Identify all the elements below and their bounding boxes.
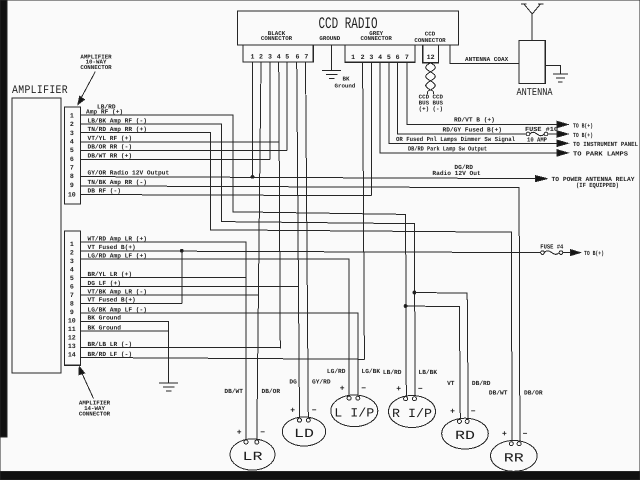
radio black connector J1	[243, 45, 313, 62]
svg-text:Radio 12V Out: Radio 12V Out	[432, 170, 481, 177]
svg-text:CONNECTOR: CONNECTOR	[79, 411, 111, 418]
wire BR/YL LR (+) pin5 joins LR (+) drop	[81, 277, 247, 279]
svg-text:−: −	[418, 385, 423, 394]
svg-text:3: 3	[70, 130, 74, 137]
wire black pin2 drop to LR speaker (-)	[257, 62, 261, 440]
svg-text:TN/RD Amp RR (+): TN/RD Amp RR (+)	[88, 126, 147, 133]
svg-text:DB/RD: DB/RD	[472, 380, 491, 387]
svg-text:(IF EQUIPPED): (IF EQUIPPED)	[576, 182, 619, 189]
svg-text:VT Fused B(+): VT Fused B(+)	[88, 244, 136, 251]
svg-text:+: +	[340, 385, 345, 394]
svg-text:BR/YL LR (+): BR/YL LR (+)	[88, 271, 133, 278]
svg-text:7: 7	[70, 164, 74, 171]
svg-text:Ground: Ground	[335, 83, 356, 90]
svg-text:6: 6	[396, 54, 400, 61]
speaker R I/P right instrument panel	[389, 396, 436, 428]
svg-text:BK: BK	[343, 76, 350, 83]
node junction R I/P(-) to RD branch	[413, 291, 416, 294]
amplifier 10-way connector J4	[65, 107, 81, 204]
grey connector pin numbers 1-7	[351, 54, 409, 61]
svg-text:DB RF (-): DB RF (-)	[88, 187, 121, 194]
wire branch to RD speaker (+)	[406, 306, 461, 419]
svg-text:LG/BK: LG/BK	[362, 368, 381, 375]
svg-text:DG LF (+): DG LF (+)	[88, 280, 121, 287]
wire GY/OR Radio 12V Output pin8 to power antenna relay	[81, 177, 536, 179]
svg-text:6: 6	[296, 54, 300, 61]
svg-text:GROUND: GROUND	[319, 35, 340, 42]
svg-text:4: 4	[378, 54, 382, 61]
wire TN/RD Amp RR (+) pin3 to RR speaker (+)	[81, 133, 513, 442]
node junction black pin1 on 12V output wire	[251, 175, 254, 178]
svg-text:10 AMP: 10 AMP	[527, 137, 547, 144]
antenna unit body	[519, 41, 545, 84]
svg-text:5: 5	[285, 54, 289, 61]
svg-text:BK Ground: BK Ground	[88, 325, 122, 332]
svg-text:RD/GY Fused B(+): RD/GY Fused B(+)	[443, 126, 502, 133]
svg-text:5: 5	[387, 54, 391, 61]
svg-text:LB/BK Amp RF (-): LB/BK Amp RF (-)	[88, 117, 147, 124]
svg-text:14: 14	[68, 351, 76, 358]
label TO POWER ANTENNA RELAY (IF EQUIPPED)	[552, 176, 635, 189]
radio CCD connector J3 pin 12	[423, 45, 439, 63]
svg-text:CONNECTOR: CONNECTOR	[80, 64, 112, 71]
wire VT/BK Amp LR (-) pin7 joins LR (-) drop	[81, 294, 259, 296]
wire antenna coax from radio	[450, 45, 519, 63]
wire black pin3 drop to DB/WT RR row	[269, 62, 271, 160]
svg-text:LR: LR	[243, 450, 264, 464]
svg-text:TO B(+): TO B(+)	[584, 250, 604, 257]
wire black pin1 drop to 12V output junction	[252, 62, 254, 177]
wire black pin6 drop to LD speaker (+)	[297, 62, 300, 418]
wire grey pin4 DB/RD Park Lamp Sw Output	[380, 62, 556, 153]
amplifier unit body	[12, 84, 68, 373]
svg-text:LG/RD Amp LF (+): LG/RD Amp LF (+)	[88, 253, 147, 260]
svg-text:12: 12	[68, 334, 76, 341]
wire black pin7 drop to LD speaker (-)	[306, 62, 309, 418]
svg-text:LB/BK: LB/BK	[419, 369, 438, 376]
svg-text:VT/YL RF (+): VT/YL RF (+)	[88, 135, 133, 142]
wire BR/LB LR (-) pin13	[81, 347, 281, 349]
wire LB/RD Amp RF (+) pin1 to R I/P speaker (+)	[81, 115, 407, 396]
svg-text:7: 7	[70, 292, 74, 299]
svg-text:2: 2	[70, 249, 74, 256]
svg-text:FUSE #10: FUSE #10	[525, 126, 558, 133]
grey connector label	[361, 30, 393, 42]
svg-text:4: 4	[70, 266, 74, 273]
CCD bus wire labels	[419, 93, 444, 112]
svg-text:(+) (-): (+) (-)	[419, 105, 443, 112]
wire black pin4 drop to BR/LB LR row	[279, 62, 281, 349]
black connector pin numbers 1-7	[251, 54, 309, 61]
svg-text:2: 2	[70, 121, 74, 128]
wire BK Ground pin11 to ground	[81, 331, 169, 383]
wire black pin5 drop to DB/OR RR row	[286, 62, 288, 151]
svg-text:2: 2	[259, 54, 263, 61]
svg-text:+: +	[502, 430, 507, 439]
svg-text:5: 5	[70, 147, 74, 154]
wire DB/WT RR (+) pin6 to black connector pin3	[81, 159, 271, 161]
svg-text:1: 1	[251, 54, 255, 61]
svg-text:GY/OR Radio 12V Output: GY/OR Radio 12V Output	[88, 170, 170, 177]
svg-text:RD: RD	[455, 429, 475, 443]
amplifier 10-way connector label with arrow	[78, 53, 112, 104]
svg-text:TO B(+): TO B(+)	[573, 132, 593, 139]
wire grey pin3 drop to DB RF row	[370, 62, 372, 195]
svg-text:TO INSTRUMENT PANEL: TO INSTRUMENT PANEL	[573, 141, 638, 148]
svg-text:6: 6	[70, 283, 74, 290]
svg-text:1: 1	[70, 241, 74, 248]
black connector label	[261, 30, 293, 42]
svg-text:2: 2	[361, 54, 365, 61]
arrow TO B(+) fuse 4	[571, 250, 581, 256]
svg-text:11: 11	[68, 326, 76, 333]
svg-text:DB/WT: DB/WT	[224, 388, 243, 395]
svg-text:TO B(+): TO B(+)	[573, 122, 593, 129]
amplifier 14-way connector J5	[65, 231, 81, 365]
svg-text:13: 13	[68, 343, 76, 350]
wire BR/RD LF (-) pin14 to grey pin2	[81, 357, 365, 359]
svg-text:6: 6	[70, 156, 74, 163]
svg-text:LG/BK Amp LF (-): LG/BK Amp LF (-)	[88, 307, 147, 314]
svg-text:7: 7	[304, 54, 308, 61]
svg-text:DB/WT: DB/WT	[489, 390, 508, 397]
wire grey pin5 OR Fused Pnl Lamps Dimmer Sw Signal	[389, 62, 557, 143]
svg-text:5: 5	[70, 275, 74, 282]
svg-text:−: −	[361, 385, 366, 394]
wire fuse 4 to arrow	[563, 252, 571, 254]
svg-text:9: 9	[70, 309, 74, 316]
node junction VT fused tap	[180, 249, 183, 252]
wire LB/BK Amp RF (-) pin2 to R I/P speaker (-)	[81, 124, 416, 396]
wire VT fused tap down to pin8 row	[181, 251, 183, 303]
svg-text:CONNECTOR: CONNECTOR	[414, 37, 446, 44]
svg-text:WT/RD Amp LR (+): WT/RD Amp LR (+)	[88, 235, 147, 242]
speaker RD right door	[442, 418, 489, 449]
svg-text:VT: VT	[447, 380, 455, 387]
wire DB/OR RR (-) pin5 to black connector pin5	[81, 150, 288, 152]
svg-text:VT/BK Amp LR (-): VT/BK Amp LR (-)	[88, 289, 147, 296]
wire VT/YL RF (+) pin4 to black connector pin4	[81, 141, 279, 143]
10-way pin numbers 1-10	[68, 112, 76, 198]
svg-text:7: 7	[405, 54, 409, 61]
CCD radio head unit U1	[238, 11, 459, 45]
CCD bus twisted pair	[426, 63, 436, 94]
svg-text:LB/RD: LB/RD	[383, 369, 402, 376]
wire grey pin7 RD/VT B(+) to battery	[407, 62, 557, 124]
wire grey pin6 RD/GY Fused B(+) to fuse 10	[398, 62, 527, 134]
arrow to power antenna relay	[536, 176, 548, 182]
fuse F4 FUSE #4	[540, 244, 563, 255]
wire DB RF (-) pin10 to grey connector pin3	[81, 195, 372, 196]
svg-text:3: 3	[369, 54, 373, 61]
svg-text:BK Ground: BK Ground	[88, 314, 122, 321]
svg-text:Amp RF (+): Amp RF (+)	[86, 109, 123, 116]
wire radio ground stem	[331, 45, 333, 70]
svg-text:TN/BK Amp RR (-): TN/BK Amp RR (-)	[88, 179, 147, 186]
svg-text:GY/RD: GY/RD	[312, 379, 331, 386]
wire WT/RD Amp LR (+) pin1 to LR speaker (+)	[81, 242, 247, 440]
speaker L I/P left instrument panel	[331, 395, 378, 427]
wire fuse 10 to arrow	[548, 133, 557, 135]
svg-text:−: −	[471, 408, 476, 417]
label DG/RD Radio 12V Out	[432, 164, 481, 177]
wire VT Fused B(+) pin8 to tap	[81, 302, 182, 304]
svg-text:BR/RD LF (-): BR/RD LF (-)	[88, 351, 133, 358]
svg-text:+: +	[396, 385, 401, 394]
wire LG/BK Amp LF (-) pin9 to L I/P speaker (-)	[81, 313, 358, 395]
svg-text:1: 1	[351, 54, 355, 61]
svg-text:ANTENNA COAX: ANTENNA COAX	[465, 56, 509, 63]
arrow TO B(+) row2	[557, 131, 568, 137]
svg-text:1: 1	[70, 112, 74, 119]
svg-text:DB/OR RR (-): DB/OR RR (-)	[88, 144, 133, 151]
svg-text:−: −	[523, 430, 528, 439]
svg-text:ANTENNA: ANTENNA	[517, 87, 554, 99]
svg-text:4: 4	[277, 54, 281, 61]
ground amplifier ground	[159, 383, 178, 391]
svg-text:DB/WT RR (+): DB/WT RR (+)	[88, 152, 133, 159]
speaker RR right rear	[491, 441, 538, 472]
wire VT Fused B(+) pin2 to fuse 4	[81, 251, 541, 253]
svg-text:12: 12	[427, 54, 435, 61]
svg-text:+: +	[237, 428, 242, 437]
wire DG LF (+) pin6 joins LD (+) drop	[81, 285, 299, 287]
svg-text:VT Fused B(+): VT Fused B(+)	[88, 297, 136, 304]
svg-text:FUSE #4: FUSE #4	[540, 244, 563, 251]
label LB/RD Amp RF (+)	[86, 104, 123, 116]
svg-text:3: 3	[70, 258, 74, 265]
svg-text:8: 8	[70, 300, 74, 307]
svg-text:CONNECTOR: CONNECTOR	[361, 35, 393, 42]
ground antenna body ground	[553, 74, 568, 82]
svg-text:DB/RD Park Lamp Sw Output: DB/RD Park Lamp Sw Output	[408, 146, 487, 153]
antenna mast symbol	[521, 4, 544, 41]
svg-text:DB/OR: DB/OR	[262, 388, 281, 395]
fuse F10 FUSE #10 10 AMP	[525, 126, 558, 143]
svg-text:AMPLIFIER: AMPLIFIER	[12, 84, 68, 97]
wire grey pin2 drop to BR/RD LF row	[363, 62, 365, 359]
arrow TO B(+) row1	[557, 121, 568, 127]
svg-text:8: 8	[70, 173, 74, 180]
svg-text:−: −	[312, 407, 317, 416]
svg-text:DG: DG	[289, 379, 297, 386]
svg-text:TO PARK LAMPS: TO PARK LAMPS	[573, 151, 628, 158]
14-way pin numbers 1-14	[68, 241, 76, 359]
svg-text:BR/LB LR (-): BR/LB LR (-)	[88, 341, 133, 348]
node junction R I/P(+) to RD branch	[404, 305, 407, 308]
svg-text:−: −	[260, 428, 265, 437]
svg-text:9: 9	[70, 182, 74, 189]
wire antenna body to ground	[545, 66, 560, 74]
arrow TO PARK LAMPS	[557, 150, 568, 156]
svg-text:DB/OR: DB/OR	[524, 390, 543, 397]
svg-text:LG/RD: LG/RD	[327, 368, 346, 375]
svg-text:RD/VT B (+): RD/VT B (+)	[454, 116, 495, 123]
svg-text:CONNECTOR: CONNECTOR	[261, 35, 293, 42]
speaker LR left rear	[230, 439, 275, 470]
svg-text:R I/P: R I/P	[392, 407, 432, 421]
speaker LD left door	[282, 417, 325, 446]
svg-text:3: 3	[268, 54, 272, 61]
radio grey connector J2	[345, 45, 415, 62]
CCD connector label	[414, 31, 446, 44]
svg-text:+: +	[290, 407, 295, 416]
svg-text:OR Fused Pnl Lamps Dimmer Sw S: OR Fused Pnl Lamps Dimmer Sw Signal	[396, 136, 515, 143]
wire LG/RD Amp LF (+) pin3 to L I/P speaker (+)	[81, 259, 350, 395]
wire branch to RD speaker (-)	[414, 293, 468, 419]
svg-text:10: 10	[68, 317, 76, 324]
svg-text:10: 10	[68, 191, 76, 198]
svg-text:4: 4	[70, 139, 74, 146]
ground BK radio chassis ground	[322, 71, 356, 90]
arrow TO INSTRUMENT PANEL	[557, 140, 568, 146]
svg-text:L I/P: L I/P	[334, 406, 374, 420]
svg-text:LD: LD	[294, 427, 314, 441]
wire TN/BK Amp RR (-) pin9 to RR speaker (-)	[81, 186, 520, 441]
svg-text:RR: RR	[504, 451, 525, 465]
svg-text:+: +	[450, 408, 455, 417]
amplifier 14-way connector label with arrow	[79, 367, 111, 418]
wire BK Ground pin10	[81, 321, 169, 331]
